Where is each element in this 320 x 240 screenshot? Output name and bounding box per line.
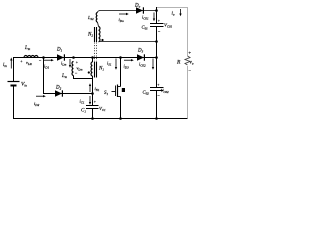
svg-text:iDo: iDo	[119, 17, 125, 23]
svg-text:+: +	[76, 60, 79, 65]
node C1 bottom dot	[91, 117, 94, 120]
polarity dot N2	[101, 39, 103, 41]
arrow i_S1	[115, 59, 117, 70]
capacitor C02	[150, 88, 164, 91]
svg-text:R: R	[176, 60, 181, 66]
arrow i_D3	[124, 59, 134, 61]
svg-text:D1: D1	[56, 48, 63, 53]
arrow i_D1	[44, 59, 54, 61]
inductor Lin	[24, 56, 38, 58]
svg-text:C1: C1	[81, 109, 86, 114]
wire right vertical C01 C02	[156, 7, 158, 119]
arrow i_C1	[89, 96, 91, 105]
svg-text:iC1: iC1	[80, 99, 85, 105]
source Vin battery plates	[8, 81, 20, 83]
svg-text:VC02: VC02	[161, 88, 170, 94]
diode Do	[136, 7, 144, 13]
svg-text:−: −	[39, 58, 42, 63]
svg-text:iC02: iC02	[139, 62, 146, 68]
svg-text:Lin: Lin	[24, 46, 31, 51]
svg-text:Lk2: Lk2	[87, 15, 94, 21]
svg-text:D2: D2	[55, 86, 62, 91]
node N1 top dot	[91, 56, 94, 59]
node C02 bottom dot	[155, 117, 158, 120]
svg-text:N2: N2	[87, 33, 93, 38]
diode D2	[55, 90, 63, 96]
resistor R load	[185, 56, 190, 65]
inductor Lm	[72, 62, 74, 76]
capacitor C1	[86, 106, 99, 109]
svg-text:iLm: iLm	[61, 61, 67, 67]
wire N1 to C1	[92, 79, 94, 119]
svg-text:VC01: VC01	[164, 23, 173, 29]
arrow i_N1 up	[89, 83, 91, 92]
svg-text:iD3: iD3	[124, 64, 130, 70]
diode D1	[57, 54, 65, 60]
node C1 top dot	[91, 92, 94, 95]
svg-text:iD2: iD2	[34, 101, 40, 107]
diode D3	[137, 54, 145, 60]
svg-text:iN1: iN1	[95, 86, 100, 92]
svg-text:iin: iin	[3, 63, 7, 68]
svg-text:+: +	[188, 52, 191, 57]
svg-text:vo: vo	[190, 60, 194, 66]
wire Lm N1 bottom link	[74, 76, 93, 79]
svg-text:+: +	[157, 82, 160, 87]
wire left rail	[13, 58, 15, 119]
load branch gray	[157, 8, 188, 119]
svg-text:iC01: iC01	[142, 15, 149, 21]
node secondary return dot	[155, 40, 158, 43]
capacitor C01	[150, 24, 164, 27]
node A dot	[42, 56, 45, 59]
svg-text:−: −	[75, 71, 78, 76]
svg-text:iS1: iS1	[107, 61, 112, 67]
svg-text:C02: C02	[143, 90, 150, 96]
wire main top	[13, 57, 157, 59]
svg-text:VC1: VC1	[99, 106, 106, 112]
node source bottom dot	[119, 117, 122, 120]
winding N2 secondary	[99, 27, 101, 42]
svg-text:Vin: Vin	[21, 82, 27, 88]
wire bottom rail	[13, 118, 188, 120]
svg-text:C01: C01	[142, 25, 149, 31]
node output top dot	[155, 9, 158, 12]
svg-text:+: +	[94, 99, 97, 104]
transistor S1 mosfet	[112, 85, 121, 98]
arrow i_C01	[153, 13, 155, 22]
svg-text:Do: Do	[134, 4, 141, 9]
svg-text:S1: S1	[104, 91, 109, 96]
wire switch branch	[120, 58, 122, 119]
svg-text:+: +	[158, 18, 161, 23]
node switch drain dot	[119, 56, 122, 59]
wire D2 branch	[44, 58, 93, 94]
svg-text:N1: N1	[98, 67, 104, 72]
core lines coupled inductor	[95, 27, 97, 78]
svg-text:+: +	[20, 59, 23, 64]
svg-text:iD1: iD1	[44, 64, 50, 70]
svg-text:vLin: vLin	[26, 60, 33, 66]
arrow i_in	[10, 57, 12, 68]
inductor Lk2 leakage	[96, 13, 97, 23]
arrow i_Do	[119, 13, 129, 15]
arrow i_Lm	[69, 59, 71, 68]
svg-text:−: −	[157, 93, 160, 98]
arrow i_D2	[36, 95, 46, 97]
winding N1 primary	[91, 62, 93, 76]
arrow i_o	[179, 9, 181, 16]
svg-text:D3: D3	[137, 49, 144, 54]
polarity dot N1	[88, 71, 90, 73]
svg-text:−: −	[158, 29, 161, 34]
svg-text:−: −	[188, 70, 191, 75]
svg-text:Lm: Lm	[61, 74, 68, 79]
wire secondary output top	[101, 10, 157, 12]
node B dot	[72, 56, 75, 59]
svg-text:io: io	[172, 12, 175, 17]
arrow i_C02	[152, 59, 154, 70]
node mid right dot	[155, 56, 158, 59]
wire secondary bottom to C01 node	[100, 41, 157, 43]
